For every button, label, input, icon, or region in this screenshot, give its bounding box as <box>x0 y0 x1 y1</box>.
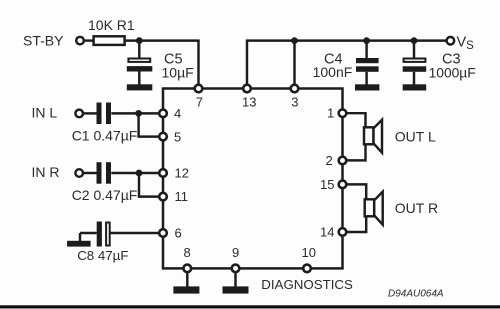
svg-text:3: 3 <box>291 95 298 110</box>
wire R1 to pin 7 <box>125 41 199 85</box>
wire ST-BY to R1 <box>85 39 94 41</box>
svg-text:8: 8 <box>184 245 191 260</box>
svg-text:ST-BY: ST-BY <box>23 33 64 49</box>
svg-text:9: 9 <box>232 245 239 260</box>
pin 3 <box>291 85 299 93</box>
svg-text:4: 4 <box>174 106 181 121</box>
junction node R1/C5 <box>136 37 143 44</box>
wire pin 9 to ground <box>234 272 236 287</box>
ground C4 <box>355 84 379 90</box>
wire pin 2 to speaker OUT L <box>346 145 366 160</box>
svg-text:1000µF: 1000µF <box>429 66 476 81</box>
capacitor C8 <box>80 222 161 247</box>
capacitor C2 <box>97 162 112 184</box>
ground pin 9 <box>223 286 249 293</box>
svg-text:1: 1 <box>327 106 334 121</box>
ground C3 <box>403 84 427 90</box>
svg-text:10µF: 10µF <box>162 65 194 81</box>
wire pin 1 to speaker OUT L <box>346 113 366 127</box>
speaker OUT L <box>364 120 382 153</box>
wire IN L to C1 <box>84 112 97 114</box>
pin 10 <box>303 265 311 273</box>
wire rail to pin 3 <box>293 41 295 85</box>
bottom border <box>0 305 500 308</box>
wire C2 to pin 12 <box>111 172 160 174</box>
junction node C4 <box>363 37 370 44</box>
svg-text:OUT R: OUT R <box>395 200 438 216</box>
junction node C2 <box>136 170 143 177</box>
wire pin 8 to ground <box>186 272 188 287</box>
wire IN R to C2 <box>84 172 97 174</box>
pin 9 <box>232 265 240 273</box>
capacitor C3 <box>403 41 427 85</box>
IC U1 outline <box>163 89 343 269</box>
resistor R1 <box>94 36 125 45</box>
svg-text:DIAGNOSTICS: DIAGNOSTICS <box>261 277 353 292</box>
pin 4 <box>159 110 167 118</box>
terminal VS <box>447 37 455 45</box>
svg-text:100nF: 100nF <box>313 64 353 80</box>
capacitor C5 <box>127 41 153 85</box>
pin 12 <box>159 169 167 177</box>
wire node to pin 5 <box>139 113 161 136</box>
wire pin 14 to speaker OUT R <box>346 217 366 232</box>
speaker OUT R <box>365 192 383 225</box>
svg-text:5: 5 <box>174 129 181 144</box>
svg-text:C1 0.47µF: C1 0.47µF <box>72 128 138 144</box>
svg-text:13: 13 <box>242 95 256 110</box>
pin 15 <box>339 181 347 189</box>
pin 5 <box>159 133 167 141</box>
pin 14 <box>339 228 347 236</box>
svg-text:14: 14 <box>320 225 334 240</box>
svg-text:10: 10 <box>302 245 316 260</box>
terminal IN R <box>75 169 83 177</box>
svg-text:VS: VS <box>457 35 475 53</box>
junction node C3 <box>411 37 418 44</box>
wire pin 15 to speaker OUT R <box>346 184 366 199</box>
svg-text:10K R1: 10K R1 <box>88 17 135 33</box>
svg-text:12: 12 <box>175 166 189 181</box>
wire VS rail from pin13 <box>247 41 450 85</box>
svg-text:11: 11 <box>175 189 189 204</box>
ground C8 <box>67 241 91 247</box>
terminal IN L <box>75 110 83 118</box>
pin 13 <box>243 85 251 93</box>
svg-text:15: 15 <box>320 177 334 192</box>
junction node pin3 <box>291 37 298 44</box>
svg-text:7: 7 <box>196 95 203 110</box>
wire node to pin 11 <box>139 173 161 197</box>
svg-text:IN L: IN L <box>32 105 58 121</box>
terminal ST-BY <box>76 37 84 45</box>
ground pin 8 <box>173 286 199 293</box>
pin 6 <box>159 229 167 237</box>
svg-text:IN R: IN R <box>32 164 60 180</box>
svg-text:OUT L: OUT L <box>395 129 436 145</box>
svg-text:6: 6 <box>175 226 182 241</box>
ground C5 <box>127 84 153 90</box>
junction node C1 <box>135 110 142 117</box>
svg-text:C2 0.47µF: C2 0.47µF <box>72 187 138 203</box>
capacitor C4 <box>356 41 379 85</box>
pin 8 <box>184 265 192 273</box>
wire C1 to pin 4 <box>111 112 160 114</box>
svg-text:2: 2 <box>326 153 333 168</box>
pin 11 <box>159 193 167 201</box>
pin 7 <box>195 85 203 93</box>
svg-text:D94AU064A: D94AU064A <box>388 289 444 300</box>
pin 1 <box>339 109 347 117</box>
pin 2 <box>339 157 347 165</box>
svg-text:C8 47µF: C8 47µF <box>77 248 128 263</box>
capacitor C1 <box>97 103 112 125</box>
